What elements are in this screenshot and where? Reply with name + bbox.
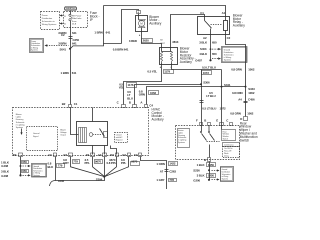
wire: pin D2 to grounds G408 xyxy=(1,157,29,178)
hot at all times banner xyxy=(65,7,77,11)
dashed note box inside HVAC xyxy=(115,133,128,143)
blower motor relay - auxiliary label xyxy=(233,13,245,27)
svg-text:C4: C4 xyxy=(149,104,153,108)
internal wire to switch box xyxy=(71,108,79,135)
wire: LT BLU drop to rear wiper pin E xyxy=(221,70,223,126)
ground G200 terminal xyxy=(208,179,210,181)
svg-text:Schematic: Schematic xyxy=(16,121,25,124)
internal wires to bottom pins xyxy=(93,146,117,155)
wire: top feed to relay A1 xyxy=(104,6,226,17)
wire: pin C2 jog right down (1 ORN 1422 / 1 GRY 778) xyxy=(141,157,178,190)
svg-text:S236: S236 xyxy=(193,169,200,173)
internal arrow (dimming input) xyxy=(21,129,23,134)
funnel wire labels xyxy=(63,158,140,166)
svg-text:B: B xyxy=(129,101,131,105)
svg-text:S041: S041 xyxy=(60,47,67,51)
svg-text:1450: 1450 xyxy=(208,163,215,167)
svg-text:C263: C263 xyxy=(169,169,176,173)
svg-text:1062: 1062 xyxy=(248,91,255,95)
svg-text:B2: B2 xyxy=(62,102,66,106)
svg-text:0.5 LT BLU: 0.5 LT BLU xyxy=(202,106,216,110)
blower motor auxiliary pin A box xyxy=(137,11,141,15)
svg-text:3 BLK: 3 BLK xyxy=(197,173,206,177)
dashed wire arrow to fuse pin A xyxy=(60,22,64,24)
svg-text:3 RED: 3 RED xyxy=(129,39,137,43)
svg-text:Voltage: Voltage xyxy=(60,131,66,134)
splice S236 xyxy=(208,169,210,171)
svg-text:E: E xyxy=(216,119,218,123)
dashed arrows to ground distribution box xyxy=(23,165,31,177)
svg-text:C3: C3 xyxy=(122,153,126,157)
svg-text:1072: 1072 xyxy=(203,71,210,75)
wire: resistor C along top (0.5 LT BLU 1072) xyxy=(172,65,227,111)
splice S041 xyxy=(60,47,72,51)
svg-text:Delay: Delay xyxy=(224,156,229,158)
wire: funnel from bottom pins to splice S394 xyxy=(71,157,129,177)
ground distribution reference box (upper right) xyxy=(222,47,248,63)
svg-text:S403: S403 xyxy=(200,47,207,51)
svg-text:Continuous: Continuous xyxy=(224,143,234,146)
ground G408 terminal 2 xyxy=(19,174,21,176)
svg-text:641: 641 xyxy=(72,71,77,75)
svg-text:PPL: PPL xyxy=(121,161,127,165)
svg-text:2620: 2620 xyxy=(143,39,150,43)
0.8 ORN 1062 label at pin A xyxy=(139,89,159,96)
svg-text:Auxiliary: Auxiliary xyxy=(233,24,245,28)
svg-text:Request: Request xyxy=(116,138,123,141)
wire: S394 left to A3 wire, curve down xyxy=(50,177,105,187)
wire: relay C2 down right side (0.8 ORN 1062) xyxy=(226,35,256,121)
svg-text:Blower: Blower xyxy=(60,128,66,131)
svg-text:0.5 YEL: 0.5 YEL xyxy=(147,70,157,74)
svg-text:A2: A2 xyxy=(203,36,207,40)
wire: orange branch left to HVAC pin A xyxy=(147,87,246,105)
dashed arrows to ground distribution box xyxy=(212,169,220,180)
svg-text:778: 778 xyxy=(169,178,174,182)
svg-text:D2: D2 xyxy=(13,153,17,157)
dashed wire arrow from S041 wire to power distribution box xyxy=(45,44,69,46)
svg-text:4 BLK: 4 BLK xyxy=(199,52,208,56)
svg-text:B1: B1 xyxy=(86,153,90,157)
svg-text:IP: IP xyxy=(90,18,93,22)
blower motor - auxiliary xyxy=(136,14,148,33)
wire: resistor A to HVAC pin C (0.5 YEL 1179/1176) xyxy=(119,65,174,105)
svg-text:650: 650 xyxy=(212,52,217,56)
svg-text:Auxiliary: Auxiliary xyxy=(152,118,164,122)
svg-text:B: B xyxy=(204,158,206,162)
HVAC interior text block xyxy=(16,113,25,129)
svg-text:Switch: Switch xyxy=(223,138,228,141)
HVAC control module label xyxy=(152,107,164,121)
wire: rear wiper to ground G200 xyxy=(193,162,215,183)
svg-text:Wdo/Lmbr: Wdo/Lmbr xyxy=(72,17,82,20)
svg-text:G200: G200 xyxy=(193,178,200,182)
svg-text:B4: B4 xyxy=(64,153,68,157)
svg-text:Blower: Blower xyxy=(16,113,22,116)
svg-text:S394: S394 xyxy=(96,178,103,182)
wire: S306 branch left to HVAC pin B xyxy=(135,85,202,105)
svg-text:LT BLU: LT BLU xyxy=(206,94,215,98)
svg-text:S306: S306 xyxy=(203,81,210,85)
svg-text:A7: A7 xyxy=(160,169,164,173)
svg-text:D3: D3 xyxy=(110,153,114,157)
wire note text xyxy=(60,128,66,136)
rear wiper switch label xyxy=(240,121,258,142)
svg-text:in Lighting: in Lighting xyxy=(16,123,25,126)
svg-text:3 BLK: 3 BLK xyxy=(199,40,208,44)
internal wire B feed xyxy=(92,108,94,122)
svg-text:1072: 1072 xyxy=(220,106,227,110)
svg-text:641: 641 xyxy=(72,31,77,35)
svg-text:G408: G408 xyxy=(1,164,8,168)
svg-text:1062: 1062 xyxy=(248,67,255,71)
svg-text:Output: Output xyxy=(60,134,66,137)
svg-text:1 BRN: 1 BRN xyxy=(94,31,102,35)
svg-text:1179: 1179 xyxy=(164,70,170,74)
svg-text:3813: 3813 xyxy=(172,40,179,44)
svg-text:Auxiliary: Auxiliary xyxy=(149,22,161,26)
wire: S041 branch right xyxy=(71,44,122,49)
svg-text:1 ORN: 1 ORN xyxy=(156,162,164,166)
splice S394 xyxy=(96,176,106,182)
svg-text:Systems: Systems xyxy=(31,49,38,52)
blower motor relay - auxiliary xyxy=(198,11,231,40)
HVAC bottom pins row xyxy=(13,153,142,157)
svg-text:C2: C2 xyxy=(61,33,65,37)
svg-text:650: 650 xyxy=(212,40,217,44)
HVAC control module - auxiliary dashed box xyxy=(13,108,149,156)
svg-text:650: 650 xyxy=(22,160,27,164)
svg-text:C456: C456 xyxy=(248,98,255,102)
wire: motor A to resistor (3 RED 2620) xyxy=(129,33,179,48)
rear wiper switch top pins xyxy=(196,119,233,126)
power distribution reference dashed box (top left) xyxy=(41,12,60,30)
svg-text:1422: 1422 xyxy=(169,162,176,166)
svg-text:Wiring Systems: Wiring Systems xyxy=(42,23,56,26)
svg-text:WHT: WHT xyxy=(160,43,165,45)
blower motor resistor label xyxy=(180,47,196,65)
svg-text:1062: 1062 xyxy=(247,111,254,115)
svg-text:9670: 9670 xyxy=(95,160,102,164)
blower motor resistor assembly - auxiliary xyxy=(160,48,178,69)
svg-text:0.8 BRN 641: 0.8 BRN 641 xyxy=(113,47,129,51)
wire: relay A2 to ground G407 (3 BLK / 4 BLK 650) xyxy=(195,35,217,63)
wire: riser to blower motor A xyxy=(122,10,139,44)
splice S403 xyxy=(210,48,212,50)
svg-text:BLK: BLK xyxy=(48,165,55,169)
ground distribution reference box (bottom left) xyxy=(32,164,47,178)
svg-text:650: 650 xyxy=(22,169,27,173)
svg-text:Systems: Systems xyxy=(33,174,40,177)
rear wiper pin B stub xyxy=(208,126,210,132)
svg-text:Power: Power xyxy=(42,14,48,17)
svg-text:1 BRN: 1 BRN xyxy=(61,71,69,75)
svg-text:D: D xyxy=(240,117,242,121)
svg-text:0.8 ORN: 0.8 ORN xyxy=(232,91,243,95)
wire: S306 drop to rear wiper pin F xyxy=(201,70,203,126)
svg-text:S343: S343 xyxy=(248,87,255,91)
svg-text:1450: 1450 xyxy=(208,173,215,177)
svg-text:PPL: PPL xyxy=(85,161,91,165)
dashed wire arrow to fuse pin B xyxy=(60,14,64,16)
svg-text:G407: G407 xyxy=(195,58,202,62)
fuse block IP label xyxy=(90,11,100,22)
power distribution reference solid box (left) xyxy=(30,39,44,53)
svg-text:C2: C2 xyxy=(227,36,231,40)
svg-text:Lights: Lights xyxy=(16,116,21,119)
fuse block IP dashed box xyxy=(64,12,88,28)
wire: riser to top feed (1 BRN 641) xyxy=(94,6,110,44)
HVAC top pins xyxy=(62,101,154,108)
svg-text:A1: A1 xyxy=(222,11,226,15)
wire: pin A3 down (0.8 BLK 779) xyxy=(48,157,65,183)
svg-text:9670: 9670 xyxy=(131,160,138,164)
fuse F (RR power) symbol xyxy=(69,11,71,28)
blower switch mechanism box xyxy=(77,122,108,146)
svg-text:ORN: ORN xyxy=(139,93,145,97)
svg-text:1176: 1176 xyxy=(128,83,134,87)
svg-text:Ground: Ground xyxy=(33,132,39,135)
svg-text:3 BRN: 3 BRN xyxy=(58,42,66,46)
svg-text:Signal: Signal xyxy=(33,136,39,138)
svg-text:0.5 LT BLU: 0.5 LT BLU xyxy=(202,66,216,70)
svg-text:641: 641 xyxy=(106,31,111,35)
svg-text:A4: A4 xyxy=(238,98,242,102)
svg-text:B: B xyxy=(204,119,206,123)
splice S343 xyxy=(245,86,256,91)
wire: relay C1 to resistor assembly (L3) xyxy=(171,15,205,48)
svg-text:9670: 9670 xyxy=(109,158,116,162)
svg-text:0.8 ORN: 0.8 ORN xyxy=(231,67,242,71)
svg-text:25 A: 25 A xyxy=(72,22,77,25)
svg-text:1 GRY: 1 GRY xyxy=(156,178,164,182)
svg-text:GRY: GRY xyxy=(63,161,69,165)
wire: fuse output down to HVAC module pin B2 (3 BRN / 1 BRN 641) xyxy=(58,28,79,105)
svg-text:Systems: Systems xyxy=(178,141,185,144)
blower motor - auxiliary label xyxy=(149,15,161,26)
svg-text:Systems: Systems xyxy=(16,126,23,129)
ground distribution reference box (bottom right) xyxy=(221,167,234,182)
svg-text:C2: C2 xyxy=(134,153,138,157)
svg-text:1062: 1062 xyxy=(150,91,157,95)
rear window washer switch sub-box xyxy=(222,130,236,141)
svg-text:Switch: Switch xyxy=(240,138,250,142)
svg-text:641: 641 xyxy=(72,42,77,46)
switch position stack xyxy=(223,143,240,158)
svg-text:Auxiliary: Auxiliary xyxy=(180,60,192,64)
ground G407 terminal xyxy=(209,59,211,61)
svg-text:Systems: Systems xyxy=(224,58,231,61)
0.5 LT BLU label at pin B xyxy=(127,90,133,100)
rear wiper switch interior text box xyxy=(178,129,190,148)
svg-text:0.8 ORN: 0.8 ORN xyxy=(230,111,241,115)
svg-text:YEL: YEL xyxy=(119,86,125,90)
dashed arrows S403/G407 to ground distribution box xyxy=(212,48,221,60)
rear wiper switch contacts xyxy=(200,126,221,158)
svg-text:779: 779 xyxy=(73,160,78,164)
svg-text:Distribution: Distribution xyxy=(42,17,53,20)
svg-text:A3: A3 xyxy=(48,153,52,157)
svg-text:S341: S341 xyxy=(224,83,231,87)
rear window wiper/washer multifunction switch dashed box xyxy=(176,126,240,160)
svg-text:A2: A2 xyxy=(98,153,102,157)
splice S306 xyxy=(200,81,210,86)
svg-text:Schematics in: Schematics in xyxy=(42,20,56,23)
svg-text:RR Power: RR Power xyxy=(72,15,82,18)
svg-text:C1: C1 xyxy=(74,102,78,106)
HVAC inner dashed sub-box xyxy=(27,127,58,151)
svg-text:1 BLK: 1 BLK xyxy=(197,163,206,167)
ground G408 terminal 1 xyxy=(20,165,22,167)
rear wiper bottom pin xyxy=(204,158,211,163)
svg-text:G408: G408 xyxy=(1,174,8,178)
svg-text:Systems: Systems xyxy=(222,178,229,181)
splice S341 xyxy=(221,83,231,88)
